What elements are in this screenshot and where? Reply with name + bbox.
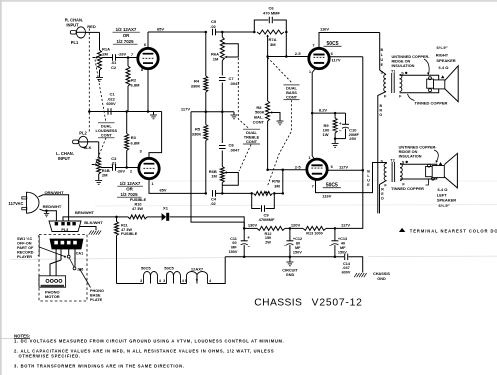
label RED bbox=[381, 188, 384, 201]
label 65V lower bbox=[159, 188, 166, 193]
label C6 470MMF bbox=[263, 5, 280, 15]
svg-text:6.4 Ω: 6.4 Ω bbox=[439, 65, 450, 70]
svg-text:CIRCUIT: CIRCUIT bbox=[282, 269, 298, 273]
dashed gang loudness to R1B bbox=[96, 138, 106, 163]
svg-text:2M: 2M bbox=[102, 51, 108, 56]
svg-text:+: + bbox=[339, 121, 342, 126]
svg-text:150V: 150V bbox=[229, 250, 238, 254]
wire cathode V1A down bbox=[147, 69, 149, 111]
capacitor C1 .022 600V bbox=[106, 92, 116, 115]
svg-text:R13 1000: R13 1000 bbox=[306, 231, 322, 235]
label S dot T1 secondary bbox=[401, 71, 407, 75]
wire BLK/WHT bbox=[80, 227, 96, 231]
resistor R11 fusible leads bbox=[115, 217, 119, 284]
svg-text:150V: 150V bbox=[293, 250, 302, 254]
svg-text:RIDGE ON: RIDGE ON bbox=[392, 60, 411, 64]
resistor R9 100 1W bbox=[333, 113, 337, 139]
wire between heaters 2 bbox=[181, 283, 187, 285]
capacitor C5 .02 bbox=[210, 19, 217, 35]
junction R4 R5 bbox=[205, 111, 208, 114]
label 65V upper bbox=[157, 27, 164, 32]
pins 3 4 heater2 bbox=[163, 279, 185, 283]
dashed gang treble upper bbox=[238, 58, 249, 129]
wire plate V2 to T1 bbox=[319, 33, 380, 48]
leader SW1 to switch bbox=[39, 247, 66, 258]
svg-text:1/2 12AX7: 1/2 12AX7 bbox=[120, 181, 141, 186]
svg-text:47 3W: 47 3W bbox=[132, 207, 143, 211]
junction grid R3 bbox=[125, 166, 128, 169]
dual treble control label bbox=[243, 129, 260, 144]
wire BRN/WHT bbox=[63, 217, 117, 221]
pin 1 label V2 bbox=[309, 69, 312, 74]
wiper loop R6B bbox=[222, 171, 238, 185]
label ORN/WHT bbox=[44, 190, 64, 195]
svg-text:−: − bbox=[248, 244, 251, 249]
resistor R3 leads bbox=[125, 112, 129, 168]
wire 112 line bbox=[191, 111, 234, 113]
svg-text:T2: T2 bbox=[390, 158, 394, 162]
AC plug 117VAC bbox=[22, 192, 39, 213]
svg-text:117V: 117V bbox=[181, 106, 190, 111]
svg-text:6.4 Ω: 6.4 Ω bbox=[438, 187, 449, 192]
wire grid upper 50C5 bbox=[266, 55, 308, 58]
resistor R2 and leads bbox=[126, 58, 130, 112]
capacitor C12 80MF 150V bbox=[286, 228, 293, 256]
junction shield bbox=[88, 110, 91, 113]
wire grid lower 50C5 bbox=[266, 169, 306, 172]
junction cathode bbox=[311, 112, 314, 115]
junction R6A top bbox=[221, 31, 224, 34]
label 8.2V bbox=[319, 108, 328, 113]
label S dot T2 secondary bbox=[402, 160, 408, 164]
wire cathode network bottom bbox=[334, 137, 346, 140]
svg-text:T1: T1 bbox=[391, 69, 395, 73]
wire cathode V2 down bbox=[312, 68, 315, 156]
svg-text:2W: 2W bbox=[265, 241, 271, 245]
capacitor C14 .047 600V bbox=[345, 254, 363, 273]
capacitor C2 .01 bbox=[111, 54, 117, 70]
dashed gang R1A to loudness bbox=[95, 60, 106, 123]
label R3 6.8M bbox=[131, 135, 141, 145]
svg-text:470 MMF: 470 MMF bbox=[263, 11, 280, 16]
phono motor bbox=[39, 276, 66, 287]
junction AC R10 R11 bbox=[115, 216, 118, 219]
svg-text:R2: R2 bbox=[131, 77, 137, 82]
pin 7 label V3 bbox=[312, 183, 315, 188]
label RED bbox=[87, 24, 96, 29]
svg-text:PL2: PL2 bbox=[79, 131, 87, 136]
tube V3 50C5 lower bbox=[307, 159, 327, 179]
svg-text:−: − bbox=[339, 129, 342, 134]
svg-text:PHONO: PHONO bbox=[90, 289, 104, 293]
label R2 6.8M bbox=[131, 77, 141, 87]
svg-text:.01: .01 bbox=[111, 161, 117, 166]
svg-text:TERMINAL NEAREST COLOR DOT: TERMINAL NEAREST COLOR DOT bbox=[410, 228, 497, 233]
svg-text:OFF-ON: OFF-ON bbox=[17, 241, 32, 245]
ground bus bbox=[225, 256, 344, 259]
svg-text:GND: GND bbox=[286, 273, 295, 277]
svg-text:.047: .047 bbox=[342, 266, 349, 270]
label BLUE upper bbox=[380, 48, 383, 67]
svg-text:6½-9″: 6½-9″ bbox=[436, 45, 447, 50]
right speaker wiring bbox=[400, 75, 439, 92]
svg-text:-26V: -26V bbox=[118, 52, 127, 57]
svg-text:470MMF: 470MMF bbox=[259, 217, 275, 222]
svg-text:BLK: BLK bbox=[84, 145, 92, 150]
svg-text:8.2V: 8.2V bbox=[319, 108, 328, 113]
label tinned copper right bbox=[415, 101, 448, 106]
svg-text:CONT: CONT bbox=[101, 133, 113, 138]
label C12 80MF 150V bbox=[284, 237, 302, 254]
wiper R8 bbox=[270, 111, 280, 120]
pins 3 4 heater1 bbox=[140, 279, 162, 283]
label C10 value bbox=[349, 128, 360, 141]
label 116V lower bbox=[322, 193, 331, 198]
wire BRO down bbox=[378, 92, 386, 214]
pin 1 label V3 bbox=[308, 155, 311, 160]
label L-channel input bbox=[56, 151, 74, 161]
legend terminal nearest color dot bbox=[399, 228, 497, 233]
leader phono base plate bbox=[79, 269, 90, 288]
svg-text:.02: .02 bbox=[210, 24, 216, 29]
label tinned copper left bbox=[391, 186, 424, 191]
resistor R1B 2M volume pot bbox=[97, 157, 110, 178]
label switch cap bbox=[77, 267, 84, 271]
label R7B 3M bbox=[272, 179, 280, 189]
svg-text:9: 9 bbox=[196, 278, 198, 282]
label T2 bbox=[390, 158, 394, 162]
resistor R7B 3M bass pot bbox=[254, 191, 273, 195]
svg-text:5: 5 bbox=[185, 279, 187, 283]
label C9 470MMF bbox=[259, 212, 275, 222]
svg-text:RED: RED bbox=[87, 24, 96, 29]
wire R7B out bbox=[250, 192, 282, 195]
wire X1 output bbox=[170, 217, 245, 229]
capacitor C11 60MF 150V bbox=[241, 228, 248, 256]
label R11 47 3W fusible bbox=[121, 223, 138, 236]
svg-text:RIGHT: RIGHT bbox=[436, 52, 449, 57]
svg-text:B: B bbox=[380, 48, 383, 52]
svg-text:330K: 330K bbox=[191, 84, 201, 89]
svg-text:CHASSIS: CHASSIS bbox=[373, 272, 390, 276]
svg-text:CA1: CA1 bbox=[76, 252, 84, 256]
svg-text:1/2 7025: 1/2 7025 bbox=[120, 192, 138, 197]
label X1 bbox=[163, 205, 169, 210]
svg-text:PL1: PL1 bbox=[71, 40, 79, 45]
label PL2 bbox=[79, 131, 87, 136]
wire screen V3 bbox=[328, 169, 364, 172]
bracket SW1 bbox=[38, 236, 39, 256]
resistor R5 330K leads bbox=[204, 112, 208, 194]
chassis ground AC bbox=[89, 231, 101, 235]
wire 117V feed down bbox=[191, 112, 244, 229]
transformer T1 secondary bbox=[400, 75, 402, 92]
svg-text:C14: C14 bbox=[343, 262, 351, 266]
label BRO bbox=[379, 104, 382, 117]
heater 50C5 no2 bbox=[167, 272, 181, 284]
junction 120V bbox=[285, 227, 303, 230]
svg-text:PART OF: PART OF bbox=[17, 246, 34, 250]
ground cathode network bbox=[332, 139, 339, 148]
svg-text:BLK/WHT: BLK/WHT bbox=[84, 220, 103, 225]
svg-text:−: − bbox=[329, 243, 332, 248]
wire screen rail down bbox=[335, 57, 363, 229]
label R8 500K BAL CONT bbox=[253, 105, 265, 124]
capacitor C6 470MMF loop bbox=[254, 17, 286, 32]
svg-text:130V: 130V bbox=[248, 223, 258, 228]
junction R5 bottom bbox=[205, 192, 208, 195]
svg-text:117V: 117V bbox=[339, 165, 348, 170]
pin 6 label V1A bbox=[144, 42, 147, 47]
heater 50C5 no1 bbox=[144, 272, 158, 284]
junction 117V bbox=[326, 227, 336, 230]
svg-text:600V: 600V bbox=[342, 271, 351, 275]
wire plate V1A 65V line bbox=[148, 32, 206, 48]
labels F T1 bbox=[384, 95, 402, 99]
svg-text:2M: 2M bbox=[102, 173, 108, 178]
wire plate V1B 65V lower line bbox=[149, 179, 206, 193]
svg-text:INPUT: INPUT bbox=[66, 22, 79, 27]
svg-text:PLAYER: PLAYER bbox=[17, 255, 32, 259]
svg-text:INSULATION: INSULATION bbox=[392, 64, 415, 68]
label -26V pin7 bbox=[118, 52, 134, 57]
svg-text:PL3: PL3 bbox=[61, 228, 68, 232]
label R-channel input bbox=[65, 18, 83, 28]
svg-text:MF: MF bbox=[231, 246, 237, 250]
label SW1 off-on bbox=[17, 237, 34, 259]
wire riser to lower grid bbox=[282, 170, 285, 195]
transformer T2 primary bbox=[384, 164, 386, 181]
label S T2 primary bbox=[380, 159, 383, 163]
dashed gang bass upper bbox=[268, 58, 292, 83]
svg-text:RIDGE ON: RIDGE ON bbox=[399, 150, 418, 154]
label 50C5 heater 1 bbox=[141, 266, 151, 271]
wire ORN/WHT bbox=[39, 195, 69, 221]
wire wiper to C2 bbox=[102, 57, 113, 59]
svg-text:R12: R12 bbox=[265, 232, 272, 236]
junction R3 top bbox=[125, 110, 128, 113]
svg-text:+: + bbox=[247, 235, 250, 240]
wire loop to grid bbox=[285, 32, 287, 57]
svg-text:1M: 1M bbox=[211, 174, 217, 179]
svg-text:3M: 3M bbox=[270, 42, 276, 47]
label C14 value bbox=[342, 262, 351, 275]
svg-text:3M: 3M bbox=[274, 183, 280, 188]
phono base plate dashed box bbox=[39, 235, 87, 301]
wire C5 to bass loop bbox=[216, 31, 254, 33]
svg-text:FUSIBLE: FUSIBLE bbox=[130, 198, 147, 202]
label right speaker bbox=[436, 45, 456, 70]
label R9 100 1W bbox=[323, 123, 331, 137]
wiper loop R6A bbox=[222, 44, 238, 59]
capacitor C3 .01 bbox=[111, 156, 117, 171]
wire PL1 to R1A bbox=[85, 32, 100, 50]
label PL1 bbox=[71, 40, 79, 45]
svg-text:OTHERWISE SPECIFIED.: OTHERWISE SPECIFIED. bbox=[19, 353, 81, 358]
label 117V screen upper bbox=[331, 58, 340, 63]
svg-text:X1: X1 bbox=[163, 205, 169, 210]
tube V2 50C5 upper bbox=[309, 48, 329, 68]
label phono base plate bbox=[90, 289, 104, 302]
svg-text:R11: R11 bbox=[121, 223, 128, 227]
dual bass control label bbox=[284, 85, 300, 100]
label T1 bbox=[391, 69, 395, 73]
resistor R4 330K leads bbox=[204, 32, 208, 112]
svg-text:1. DC VOLTAGES MEASURED FROM C: 1. DC VOLTAGES MEASURED FROM CIRCUIT GRO… bbox=[14, 339, 284, 344]
svg-text:.0047: .0047 bbox=[229, 147, 240, 152]
resistor R8 500K leads bbox=[266, 57, 270, 170]
label 120V bbox=[291, 223, 301, 228]
label left speaker bbox=[437, 187, 456, 208]
svg-text:U: U bbox=[380, 58, 383, 62]
label R5 330K bbox=[192, 126, 202, 136]
wires CA1 to motor bbox=[50, 249, 61, 276]
label C10 polarity bbox=[339, 121, 342, 133]
wire cathode to V3 bbox=[312, 156, 315, 160]
label pins 2-5 lower bbox=[295, 164, 302, 169]
resistor R1A 2M volume pot bbox=[98, 47, 111, 70]
svg-text:2-5: 2-5 bbox=[295, 164, 302, 169]
leader tinned left bbox=[426, 180, 429, 186]
svg-text:40: 40 bbox=[341, 242, 345, 246]
capacitor C7 .0047 and leads bbox=[219, 61, 226, 112]
label C11 polarity bbox=[247, 235, 250, 249]
label phono motor bbox=[45, 290, 60, 300]
transformer T1 primary bbox=[384, 75, 386, 92]
transformer T2 core bbox=[392, 162, 395, 182]
plug PL2 bbox=[73, 136, 89, 147]
wire cathode V1B bbox=[149, 112, 162, 158]
label C13 40MF 150V bbox=[329, 237, 347, 254]
wire cathode branch bbox=[312, 112, 345, 115]
dual loudness control label bbox=[95, 123, 117, 138]
left speaker wiring bbox=[400, 164, 437, 179]
heater 12AX7 bbox=[187, 272, 208, 284]
label BLUE lower bbox=[367, 170, 370, 188]
label R6A 1M bbox=[211, 52, 219, 62]
pin 6 label V2 bbox=[331, 51, 334, 56]
svg-text:C2: C2 bbox=[111, 65, 117, 70]
junction C7 C8 bbox=[221, 111, 224, 114]
pin 6 label V3 bbox=[331, 164, 334, 169]
svg-text:OR: OR bbox=[123, 33, 130, 38]
label 50C5 heater 2 bbox=[164, 266, 174, 271]
label 117V rail bbox=[181, 106, 190, 111]
left speaker cone bbox=[444, 153, 457, 188]
junction R4 top bbox=[205, 31, 208, 34]
label -26V pin2 bbox=[117, 168, 133, 173]
svg-text:50C5: 50C5 bbox=[141, 266, 151, 271]
svg-text:1W: 1W bbox=[323, 132, 329, 137]
svg-text:3. BOTH TRANSFORMER WINDINGS A: 3. BOTH TRANSFORMER WINDINGS ARE IN THE … bbox=[14, 364, 185, 369]
svg-text:BASE: BASE bbox=[90, 294, 101, 298]
svg-text:O: O bbox=[379, 113, 382, 117]
label 50C5 upper bbox=[324, 41, 342, 47]
capacitor C8 .0047 and leads bbox=[219, 112, 226, 163]
resistor R6A 1M treble pot bbox=[220, 32, 224, 61]
right speaker driver bbox=[434, 80, 445, 89]
color-dot triangle right speaker bbox=[441, 75, 444, 78]
junction 130V bbox=[243, 227, 257, 230]
svg-text:BRN/WHT: BRN/WHT bbox=[75, 210, 94, 215]
resistor R12 150 2W bbox=[257, 226, 285, 230]
svg-text:RED/WHT: RED/WHT bbox=[43, 204, 62, 209]
ground below R1A bbox=[96, 78, 103, 82]
svg-text:UNTINNED COPPER-: UNTINNED COPPER- bbox=[392, 55, 431, 59]
svg-text:MF: MF bbox=[340, 246, 346, 250]
label S T1 primary bbox=[380, 70, 383, 74]
svg-text:117V: 117V bbox=[341, 223, 350, 228]
transformer T2 secondary bbox=[400, 164, 402, 181]
svg-text:65V: 65V bbox=[159, 188, 166, 193]
svg-text:SW1 ½C: SW1 ½C bbox=[17, 237, 32, 241]
ground AC bbox=[44, 211, 49, 217]
label 116V upper bbox=[320, 27, 329, 32]
pins 5 9 4 heater3 bbox=[185, 278, 212, 283]
svg-text:SPEAKER: SPEAKER bbox=[437, 198, 456, 203]
label R7A 3M bbox=[268, 37, 276, 47]
svg-text:MF: MF bbox=[295, 246, 301, 250]
label 117V node bbox=[341, 223, 350, 228]
svg-text:3: 3 bbox=[140, 279, 142, 283]
label 1/2 12AX7 OR 1/2 7025 upper bbox=[113, 27, 140, 44]
svg-text:2-5: 2-5 bbox=[295, 51, 302, 56]
label pins 2-5 upper bbox=[295, 51, 302, 56]
svg-text:GND: GND bbox=[377, 277, 386, 281]
plug PL1 bbox=[70, 27, 85, 38]
svg-text:120V: 120V bbox=[291, 223, 301, 228]
svg-text:47 3W: 47 3W bbox=[121, 228, 132, 232]
wire RED/WHT bbox=[40, 209, 57, 221]
svg-text:D: D bbox=[381, 197, 384, 201]
label 12AX7 heater bbox=[191, 267, 204, 272]
right speaker terminal strip bbox=[427, 77, 434, 92]
label RED/WHT bbox=[43, 204, 62, 209]
svg-text:RECORD: RECORD bbox=[17, 250, 34, 254]
wiper R1B bbox=[92, 163, 98, 166]
pin 7 label V2 bbox=[312, 42, 315, 47]
label C7 bbox=[228, 76, 240, 86]
capacitor C9 470MMF loop bbox=[252, 193, 275, 211]
wire RED down bbox=[380, 181, 387, 214]
svg-text:INSULATION: INSULATION bbox=[399, 154, 422, 158]
wire audio ground line bbox=[89, 111, 161, 113]
notes block bbox=[14, 333, 284, 368]
rectifier X1 bbox=[162, 213, 170, 221]
junction grid R2 bbox=[127, 56, 130, 59]
pin 3 label V1B bbox=[139, 149, 142, 154]
svg-text:.0047: .0047 bbox=[229, 81, 240, 86]
svg-text:65V: 65V bbox=[157, 27, 164, 32]
pin 1 label V1B bbox=[151, 181, 154, 186]
shield dashed line bbox=[88, 29, 90, 134]
label 1/2 12AX7 OR 1/2 7025 lower bbox=[117, 181, 143, 197]
resistor R13 1000 bbox=[303, 226, 326, 230]
label untinned copper right bbox=[392, 55, 431, 68]
svg-text:150: 150 bbox=[265, 236, 271, 240]
connector PL3 bbox=[49, 221, 81, 232]
wiper R7B arrow bbox=[266, 191, 268, 194]
label circuit gnd bbox=[282, 269, 298, 278]
svg-text:50C5: 50C5 bbox=[164, 266, 174, 271]
svg-text:60: 60 bbox=[232, 241, 236, 245]
svg-text:1M: 1M bbox=[213, 56, 219, 61]
leader untinned left bbox=[434, 150, 438, 163]
tube V1A 1/2 12AX7 upper bbox=[138, 48, 158, 68]
wire to heaters bbox=[117, 283, 144, 285]
dashed gang bass lower bbox=[268, 100, 292, 186]
ground below R1B bbox=[95, 174, 102, 184]
